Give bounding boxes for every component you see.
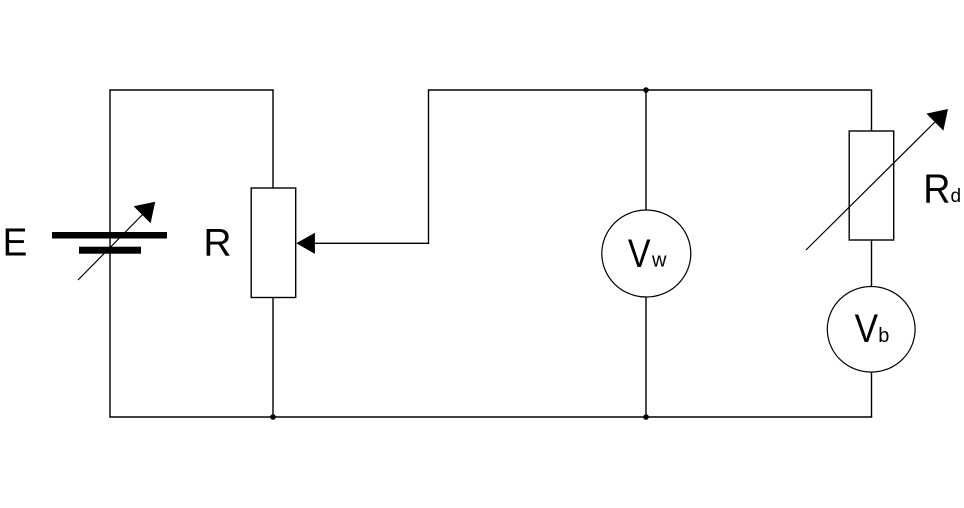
wire Rd top lead xyxy=(871,90,873,131)
wire potentiometer top lead xyxy=(272,90,274,188)
junction dot top bus / Vw xyxy=(643,87,649,93)
svg-text:E: E xyxy=(3,222,28,265)
svg-text:d: d xyxy=(951,186,962,207)
label Vw xyxy=(628,230,667,275)
junction dot bottom bus / R xyxy=(270,414,276,420)
wire Vw bottom lead xyxy=(645,298,647,418)
wire Vb bottom lead xyxy=(871,372,873,417)
wire top-right bus xyxy=(428,89,872,91)
wire bottom bus xyxy=(109,416,872,418)
wire Vw top lead xyxy=(645,90,647,210)
wire left vertical (battery branch) xyxy=(109,90,111,417)
battery E plates xyxy=(52,232,167,254)
Rd variability arrow xyxy=(806,109,948,250)
label E xyxy=(3,222,28,265)
svg-text:b: b xyxy=(878,325,889,347)
svg-text:R: R xyxy=(203,222,231,265)
wire top-left bus xyxy=(109,89,273,91)
label R xyxy=(203,222,231,265)
svg-text:V: V xyxy=(855,306,878,351)
svg-text:V: V xyxy=(628,230,651,275)
label Vb xyxy=(855,306,890,351)
svg-text:w: w xyxy=(651,250,667,272)
junction dot bottom bus / Vw xyxy=(643,414,649,420)
battery variability arrow xyxy=(78,202,155,280)
wire potentiometer bottom lead xyxy=(272,298,274,418)
svg-text:R: R xyxy=(923,167,950,212)
potentiometer R body xyxy=(251,188,296,298)
label Rd xyxy=(923,167,961,212)
voltmeter Vw circle xyxy=(602,210,691,297)
wire wiper vertical riser xyxy=(428,90,430,244)
potentiometer wiper arrow xyxy=(296,233,315,254)
voltmeter Vb circle xyxy=(827,287,915,373)
wire Rd to Vb lead xyxy=(871,240,873,286)
variable resistor Rd body xyxy=(849,131,894,240)
wire wiper horizontal xyxy=(314,242,429,244)
